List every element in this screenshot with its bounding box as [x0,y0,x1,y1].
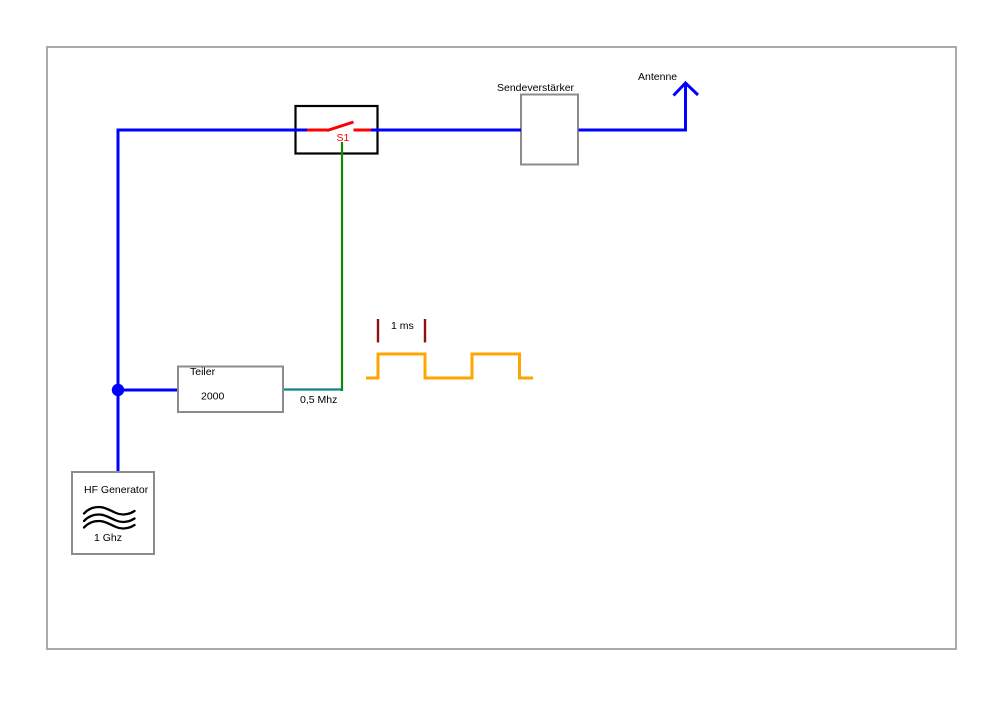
svg-text:Teiler: Teiler [190,366,216,378]
svg-text:Antenne: Antenne [638,71,677,83]
sine symbol waves [84,507,135,528]
svg-text:Sendeverstärker: Sendeverstärker [497,82,575,94]
wire blue vertical left [117,129,120,472]
svg-text:HF Generator: HF Generator [84,484,149,496]
amplifier box Sendeverstärker [497,82,578,165]
wire green to switch [341,142,343,391]
HF generator box [72,472,154,554]
switch S1 contacts [307,122,371,144]
timing marker ticks 1 ms [378,319,425,343]
pulse waveform [366,354,533,378]
svg-text:2000: 2000 [201,391,225,403]
wire teal Teiler output [284,388,343,390]
svg-text:0,5 Mhz: 0,5 Mhz [300,394,337,406]
wire blue between switch and amplifier [371,129,522,132]
wire blue between amplifier and antenna [579,129,688,132]
wire blue junction to Teiler [118,389,177,392]
svg-text:1 ms: 1 ms [391,320,414,332]
switch box S1 [296,106,378,154]
node junction dot [112,384,124,396]
antenna [638,71,698,132]
svg-text:1 Ghz: 1 Ghz [94,532,122,544]
wire blue top horizontal left segment [117,129,308,132]
divider box Teiler 2000 [178,366,283,412]
